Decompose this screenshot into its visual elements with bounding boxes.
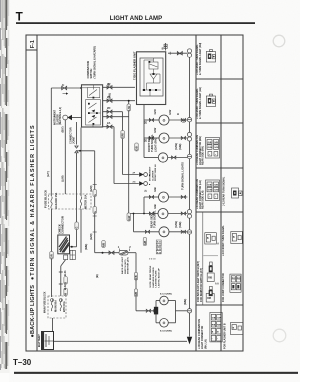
svg-text:G/B: G/B: [153, 187, 157, 192]
svg-text:▪: ▪: [217, 338, 218, 340]
svg-text:G: G: [76, 227, 79, 229]
svg-text:G/W: G/W: [122, 132, 125, 138]
svg-text:2D: 2D: [107, 106, 110, 110]
svg-text:FOR JOINT CONNECTOR: FOR JOINT CONNECTOR: [222, 273, 225, 302]
svg-text:2G: 2G: [133, 182, 136, 184]
svg-text:●BACK-UP LIGHTS: ●BACK-UP LIGHTS: [30, 285, 36, 338]
svg-text:⊙: ⊙: [162, 118, 166, 122]
svg-text:LIGHTS, BACK-UP: LIGHTS, BACK-UP: [157, 268, 160, 288]
svg-text:(L/W): (L/W): [108, 93, 112, 100]
svg-text:(L/Y): (L/Y): [46, 171, 50, 177]
svg-text:▪: ▪: [215, 154, 216, 156]
svg-text:& TURN SIGNAL LIGHT (LH): & TURN SIGNAL LIGHT (LH): [199, 87, 202, 119]
svg-text:SWITCH (M/T): SWITCH (M/T): [125, 259, 127, 274]
svg-text:(G/B): (G/B): [178, 222, 182, 228]
svg-text:B: B: [233, 237, 235, 239]
svg-text:●TURN SIGNAL & HAZARD FLASHER: ●TURN SIGNAL & HAZARD FLASHER LIGHTS: [30, 124, 36, 280]
svg-text:MAIN 80A: MAIN 80A: [54, 300, 58, 312]
svg-text:HAZARD 15A: HAZARD 15A: [54, 192, 58, 209]
svg-text:▪: ▪: [215, 196, 216, 198]
svg-text:(B/Y): (B/Y): [61, 126, 65, 132]
svg-text:B: B: [212, 331, 214, 333]
svg-text:B-01: B-01: [63, 270, 67, 276]
svg-text:G: G: [94, 194, 97, 196]
svg-text:& TURN SIGNAL LIGHT (RH): & TURN SIGNAL LIGHT (RH): [199, 43, 202, 75]
svg-text:⊙: ⊙: [161, 156, 165, 160]
svg-text:1 0 1 0: 1 0 1 0: [149, 259, 156, 261]
svg-text:B: B: [207, 238, 209, 240]
svg-text:R/B: R/B: [232, 279, 236, 281]
svg-text:LIGHT AND LAMP: LIGHT AND LAMP: [110, 16, 163, 22]
svg-text:D: D: [176, 113, 180, 115]
svg-text:(G/W): (G/W): [174, 221, 178, 228]
svg-text:MAIN FUSE BLOCK: MAIN FUSE BLOCK: [44, 291, 47, 313]
svg-text:B-02: B-02: [63, 284, 67, 290]
svg-text:G/B: G/B: [144, 240, 147, 245]
svg-text:F-1: F-1: [30, 40, 36, 48]
svg-text:⊙: ⊙: [162, 195, 166, 199]
svg-text:⊙: ⊙: [162, 230, 166, 234]
svg-text:(RH, LH): (RH, LH): [204, 339, 207, 349]
svg-text:2A: 2A: [107, 121, 110, 125]
svg-text:G/B: G/B: [214, 142, 218, 144]
svg-text:B: B: [162, 47, 164, 51]
svg-text:1: 1: [118, 245, 120, 249]
svg-text:G/R: G/R: [51, 254, 54, 259]
svg-text:(L/W): (L/W): [61, 175, 65, 182]
svg-text:R/B: R/B: [237, 279, 241, 281]
svg-text:T–30: T–30: [13, 358, 32, 367]
svg-text:R/B: R/B: [207, 298, 211, 300]
svg-text:1I: 1I: [62, 83, 64, 87]
svg-text:CLUSTER: CLUSTER: [152, 170, 154, 181]
svg-text:REAR SIDE (LH): REAR SIDE (LH): [202, 190, 205, 209]
svg-text:(G/B): (G/B): [178, 144, 182, 150]
svg-text:⊙: ⊙: [162, 299, 166, 303]
svg-text:R/B: R/B: [135, 292, 138, 296]
svg-text:(B): (B): [95, 274, 99, 278]
svg-text:A: A: [217, 243, 219, 246]
svg-text:J-10 FRONT TURN SIGNAL: J-10 FRONT TURN SIGNAL: [222, 225, 225, 256]
svg-text:(G/W): (G/W): [90, 233, 93, 240]
svg-text:BACK-UP LIGHT: BACK-UP LIGHT: [121, 256, 124, 274]
svg-text:2C: 2C: [107, 82, 110, 86]
svg-text:G/W: G/W: [217, 317, 221, 319]
svg-text:G/B: G/B: [136, 146, 139, 151]
svg-text:CONNECTOR: CONNECTOR: [69, 127, 73, 144]
svg-text:CONNECTOR: CONNECTOR: [61, 216, 65, 234]
svg-text:BTN 40A: BTN 40A: [62, 301, 66, 312]
svg-text:LIGHT (RH): LIGHT (RH): [153, 138, 157, 152]
svg-text:T/SIG FLASHER UNIT: T/SIG FLASHER UNIT: [132, 51, 136, 80]
svg-text:⊙: ⊙: [161, 212, 165, 216]
svg-text:TURN SIGNAL LIGHTS: TURN SIGNAL LIGHTS: [181, 162, 185, 190]
svg-text:▪: ▪: [212, 338, 213, 340]
svg-text:G/B: G/B: [214, 184, 218, 186]
svg-text:METER 10A: METER 10A: [84, 194, 88, 209]
svg-text:R/B: R/B: [217, 324, 221, 326]
svg-text:INSTRUMENT: INSTRUMENT: [55, 109, 57, 125]
svg-text:E-14 1(R/B): E-14 1(R/B): [160, 330, 172, 333]
svg-text:G/B: G/B: [153, 204, 157, 209]
svg-text:INHIBITOR (A/T): INHIBITOR (A/T): [127, 257, 130, 274]
svg-text:(G/W): (G/W): [90, 185, 93, 192]
svg-text:BATTERY: BATTERY: [37, 334, 41, 347]
svg-text:INSTRUMENT: INSTRUMENT: [150, 166, 152, 181]
svg-text:G/B: G/B: [208, 142, 212, 144]
svg-text:(TURN SIGNAL & HAZARD): (TURN SIGNAL & HAZARD): [93, 46, 96, 79]
svg-text:(G/W): (G/W): [174, 143, 178, 150]
svg-text:G/W: G/W: [153, 127, 157, 133]
svg-text:2I: 2I: [144, 190, 148, 192]
svg-text:R/B: R/B: [212, 324, 216, 326]
svg-text:(R/B): (R/B): [84, 244, 88, 250]
svg-text:B: B: [233, 327, 235, 329]
svg-text:2E: 2E: [144, 139, 148, 142]
svg-text:(SECTION E-1,2): (SECTION E-1,2): [60, 107, 62, 125]
svg-text:G/W: G/W: [168, 109, 172, 115]
svg-text:T: T: [16, 11, 24, 24]
svg-text:J-12 REAR TURN SIGNAL: J-12 REAR TURN SIGNAL: [223, 176, 226, 206]
svg-text:■: ■: [149, 183, 151, 186]
svg-text:2E: 2E: [144, 121, 148, 124]
svg-text:E-13 1(R/B): E-13 1(R/B): [160, 294, 172, 296]
svg-text:FUSE BLOCK: FUSE BLOCK: [44, 190, 48, 208]
svg-text:CLUSTER: CLUSTER: [57, 114, 59, 125]
svg-text:(R/B): (R/B): [183, 299, 187, 305]
svg-text:FRONT SIDE LH: FRONT SIDE LH: [155, 164, 157, 181]
svg-text:R/B: R/B: [135, 275, 138, 279]
svg-text:NOTE: REAR TRUNK: NOTE: REAR TRUNK: [149, 265, 152, 287]
svg-text:FOR FLASHER UNIT B: FOR FLASHER UNIT B: [224, 323, 227, 349]
svg-text:▪: ▪: [209, 196, 210, 198]
svg-text:G/W: G/W: [128, 215, 131, 221]
svg-text:G: G: [94, 211, 97, 213]
svg-text:L/W: L/W: [128, 105, 131, 110]
svg-text:R/B: R/B: [208, 277, 212, 279]
svg-text:▪: ▪: [209, 154, 210, 156]
svg-text:2: 2: [129, 245, 131, 249]
svg-text:⊙: ⊙: [162, 136, 166, 140]
svg-text:TURN SIGNAL: TURN SIGNAL: [153, 210, 157, 228]
svg-text:⊙: ⊙: [162, 321, 166, 325]
svg-text:A A: A A: [215, 283, 219, 286]
svg-text:G/B: G/B: [208, 184, 212, 186]
svg-text:B: B: [65, 282, 68, 284]
svg-text:R/B: R/B: [103, 243, 106, 247]
svg-text:G/B: G/B: [212, 317, 216, 319]
svg-text:B: B: [217, 331, 219, 333]
svg-text:HARNESS IS USED: HARNESS IS USED: [152, 267, 155, 287]
svg-text:G/W: G/W: [153, 109, 157, 115]
svg-text:LICENSE PLATE: LICENSE PLATE: [155, 270, 158, 288]
svg-text:REAR SIDE (RH): REAR SIDE (RH): [202, 146, 205, 165]
